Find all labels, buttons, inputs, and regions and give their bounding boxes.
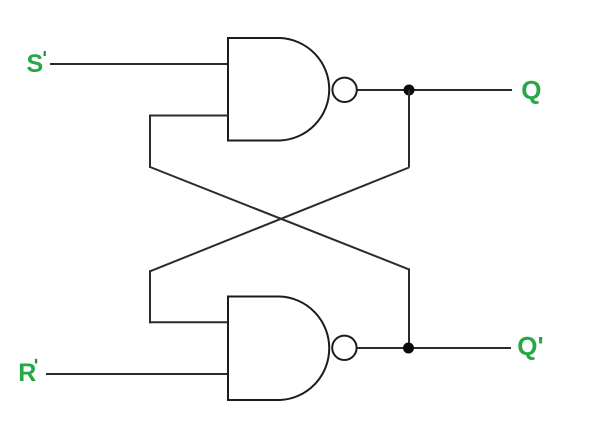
nand-gate U1 body [228, 38, 329, 141]
wire R' input to U2 [46, 373, 228, 375]
svg-text:Q: Q [521, 75, 541, 105]
svg-text:S: S [27, 50, 44, 78]
wire U1 output to Q [358, 89, 513, 91]
wire Q feedback vertical left [149, 270, 151, 323]
node S' prime mark [44, 51, 46, 56]
wire Q' feedback into U1 input [149, 115, 228, 117]
node junction Q dot [404, 85, 415, 96]
wire S' input to U1 [50, 63, 228, 65]
wire U2 output to Q' [358, 347, 512, 349]
wire Q' feedback vertical left [149, 115, 151, 169]
svg-text:R: R [18, 359, 36, 387]
nand-gate U2 body [228, 297, 329, 401]
wire Q' feedback diagonal [150, 167, 409, 269]
wire Q feedback vertical right [408, 90, 410, 168]
nand-gate U1 inversion bubble [332, 78, 356, 102]
wire Q feedback into U2 input [149, 321, 228, 323]
node junction Q' dot [403, 343, 414, 354]
wire Q' feedback vertical right [408, 268, 410, 348]
node R' prime mark [35, 359, 37, 364]
svg-text:Q': Q' [517, 331, 543, 361]
nand-gate U2 inversion bubble [332, 336, 356, 360]
wire Q feedback diagonal [150, 168, 409, 272]
